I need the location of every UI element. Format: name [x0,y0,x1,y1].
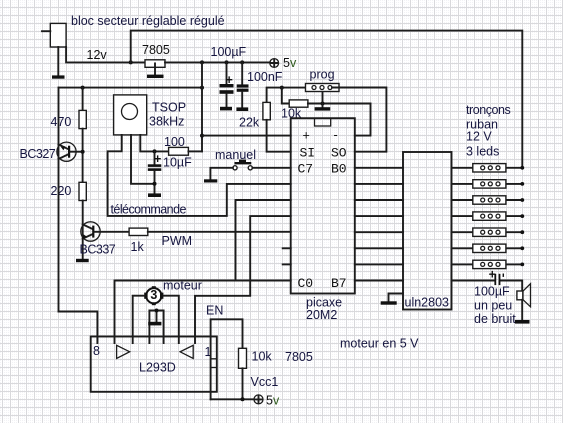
wire: switch left to ground [210,168,233,180]
wire: uln out8 to speaker cap [452,281,523,292]
svg-text:20M2: 20M2 [306,308,337,322]
node: 12v rail to top rail [129,60,133,64]
svg-text:220: 220 [51,184,72,198]
wire: B6 to uln [355,263,403,265]
resistor R3 100 [169,147,189,155]
resistor R4 22k [267,88,306,103]
wire: B7 to uln [355,280,403,282]
wire: motor right to L293D out2 [163,296,178,343]
transistor Q2 BC337 [81,201,129,259]
wire: B3 to uln [355,215,403,217]
wire: B4 to uln [355,231,403,233]
node: TSOP gnd / 10uF minus [153,182,157,186]
picaxe U3 box [291,118,355,293]
svg-text:+: + [303,129,310,143]
svg-text:C7: C7 [298,162,314,177]
wire: TSOP gnd pin [131,135,155,184]
svg-text:5v: 5v [283,56,297,70]
svg-text:38kHz: 38kHz [149,115,184,129]
svg-text:tronçons: tronçons [466,103,511,117]
wire: B5 to uln [355,247,403,249]
wire: uln gnd [389,294,404,302]
L293D pin1 notch [211,359,217,368]
wire: switch right to C7 [252,167,290,169]
wire: B2 to uln [355,199,403,201]
svg-text:+: + [154,152,161,166]
svg-text:1k: 1k [131,240,145,254]
resistor R1 470 [82,88,84,111]
ground (100nF) [236,107,248,111]
ground (prog) [315,107,331,110]
wire: PWM line [148,231,291,233]
wire: 87.6 rail left segment [59,87,203,89]
buffer triangle right [180,345,193,358]
led strip 1 [452,164,525,172]
capacitor C2 100nF [241,62,243,84]
svg-text:3 leds: 3 leds [466,145,499,159]
led strip 2 [452,180,525,188]
ground (manuel) [204,179,217,182]
svg-text:un peu: un peu [474,299,512,313]
ground (L293D) [148,322,161,326]
wire: 7805 to ground [154,63,156,74]
svg-text:-: - [334,128,338,142]
resistor R6 1k [129,228,148,235]
power symbol 5v bottom [254,395,263,404]
wire: EN net [211,319,243,399]
ground (speaker) [515,320,530,324]
svg-text:de bruit: de bruit [474,312,516,326]
resistor R7 10k [239,348,247,368]
wire: 0V node to ground [322,92,324,108]
node: L293D gnd [155,309,159,313]
svg-text:100nF: 100nF [247,70,283,84]
svg-text:100µF: 100µF [211,45,247,59]
wire: BC327 collector to L293D pin8 [59,312,98,344]
svg-text:bloc secteur réglable régulé: bloc secteur réglable régulé [71,14,225,28]
wire: picaxe p6 to L293D in2 [195,216,291,343]
svg-text:7805: 7805 [142,43,170,57]
node: 470 top [81,86,85,90]
led strip 7 [452,260,525,268]
wire: TSOP out pin to telecommande loop [108,135,291,216]
led strip 5 [452,228,525,236]
wire: Vcc1 rail [211,398,254,400]
led strip 4 [452,212,525,220]
capacitor C4 100uF speaker [494,274,496,285]
node: 100R left / 10uF top [153,149,157,153]
svg-text:prog: prog [310,68,335,82]
wire: TSOP vs pin [140,135,168,152]
wire: 5v vertical branch [201,62,203,151]
led strip 3 [452,196,525,204]
resistor R2 220 [79,182,86,200]
svg-text:L293D: L293D [139,361,176,375]
node: BC327 base [81,150,85,154]
svg-text:C0: C0 [298,276,314,291]
svg-text:470: 470 [51,115,72,129]
svg-text:10k: 10k [252,350,273,364]
node: +5 to picaxe [200,134,204,138]
svg-text:22k: 22k [239,116,260,130]
svg-text:+: + [226,73,233,87]
node: 5v rail / TSOP branch [200,60,204,64]
capacitor C3 10uF [154,151,156,164]
svg-text:7805: 7805 [285,350,313,364]
svg-text:SI: SI [300,146,316,161]
wire: 10k bottom to rail [242,368,244,399]
svg-text:BC337: BC337 [80,243,116,257]
pin stub C2 [283,263,291,265]
svg-text:PWM: PWM [162,234,193,248]
svg-text:B7: B7 [331,276,347,291]
node: 10k / rail [241,397,245,401]
ground (100uF) [220,107,232,111]
pin stub C1 [283,247,291,249]
ground (power block) [52,75,65,78]
switch manuel [233,160,253,170]
connector prog [306,84,340,92]
motor M1 [144,286,163,305]
ground (TSOP) [148,193,161,197]
wire: block bottom to ground [57,47,59,75]
node: 0V node [321,102,325,106]
svg-text:TSOP: TSOP [152,101,186,115]
power block J1 [50,23,66,47]
svg-text:moteur: moteur [163,279,202,293]
wire: prog node down to 10k [282,88,289,104]
node: 5v rail / 100uF [225,60,229,64]
wire: motor left to L293D out1 [133,296,145,343]
svg-text:12v: 12v [87,48,108,62]
L293D U5 box [91,337,217,392]
wire: block to 12v rail [66,47,145,62]
svg-text:B0: B0 [331,162,347,177]
svg-text:manuel: manuel [215,148,256,162]
wire: minus pin to 0V [355,104,371,136]
regulator 7805 [145,60,165,68]
wire: B1 to uln [355,183,403,185]
node: prog pin1 [280,86,284,90]
wire: picaxe p5 net to C0 and L293D in1 [115,200,291,343]
wire: prog pin3 to SO [332,88,386,152]
svg-text:uln2803: uln2803 [405,296,450,310]
wire: B0 to uln [355,167,403,169]
buffer triangle left [117,345,130,358]
svg-text:moteur en 5 V: moteur en 5 V [340,337,419,351]
svg-text:10µF: 10µF [163,156,192,170]
wire: stub left of power block [42,30,50,32]
ground (7805) [147,75,164,78]
svg-text:+: + [489,268,496,282]
wire: 12V top rail [131,31,523,168]
picaxe notch [315,118,331,126]
resistor R5 10k [289,100,308,107]
svg-text:télécommande: télécommande [111,203,187,217]
power symbol 5v [270,59,279,68]
svg-text:100µF: 100µF [474,285,510,299]
TSOP body U2 [114,95,147,135]
node: 87.6 rail / 5v vertical [200,86,204,90]
svg-text:SO: SO [331,146,347,161]
svg-text:12 V: 12 V [466,130,492,144]
node: 5v rail / 100nF [240,60,244,64]
wire: 5v rail [165,61,270,63]
ground (BC337) [76,259,89,262]
svg-text:BC327: BC327 [20,147,56,161]
wire: L293D gnd pins [149,311,163,344]
svg-text:8: 8 [93,344,100,358]
svg-text:EN: EN [206,304,223,318]
transistor Q1 BC327 [57,88,81,312]
svg-text:Vcc1: Vcc1 [251,375,279,389]
uln2803 U4 box [403,152,452,310]
svg-text:5v: 5v [266,394,280,408]
capacitor C1 100uF [226,62,228,84]
led strip 6 [452,244,525,252]
svg-text:3: 3 [150,288,157,302]
wire: +5 to picaxe plus pin [202,135,291,137]
speaker LS1 [517,284,531,320]
ground (uln) [381,301,397,304]
